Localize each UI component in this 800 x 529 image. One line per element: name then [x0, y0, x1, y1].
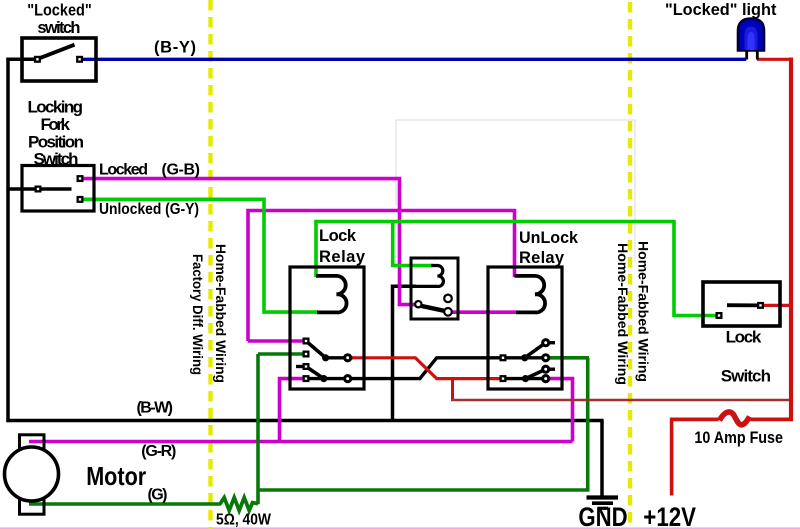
svg-text:10 Amp Fuse: 10 Amp Fuse	[694, 428, 783, 447]
svg-text:Locked: Locked	[99, 162, 148, 179]
svg-text:Factory Diff. Wiring: Factory Diff. Wiring	[190, 254, 206, 375]
svg-text:"Locked": "Locked"	[27, 2, 92, 20]
svg-text:Home-Fabbed Wiring: Home-Fabbed Wiring	[615, 243, 631, 385]
svg-text:Fork: Fork	[41, 115, 71, 134]
svg-text:(B-W): (B-W)	[137, 400, 174, 417]
svg-text:Home-Fabbed Wiring: Home-Fabbed Wiring	[636, 241, 652, 382]
svg-text:(G-R): (G-R)	[141, 443, 176, 460]
svg-text:"Locked" light: "Locked" light	[665, 0, 777, 19]
svg-text:(G-B): (G-B)	[162, 162, 201, 179]
svg-text:5Ω, 40W: 5Ω, 40W	[216, 512, 272, 529]
svg-text:(B-Y): (B-Y)	[154, 38, 196, 56]
svg-text:+12V: +12V	[643, 502, 696, 529]
svg-text:(G): (G)	[148, 487, 168, 504]
svg-text:Lock: Lock	[319, 227, 357, 245]
svg-text:Motor: Motor	[86, 461, 146, 491]
svg-text:UnLock: UnLock	[519, 229, 579, 247]
svg-text:Locking: Locking	[28, 98, 84, 117]
svg-text:Home-Fabbed Wiring: Home-Fabbed Wiring	[213, 244, 229, 383]
svg-text:GND: GND	[578, 502, 627, 529]
svg-text:Switch: Switch	[721, 367, 771, 386]
svg-text:Relay: Relay	[519, 249, 565, 267]
svg-text:Relay: Relay	[319, 248, 366, 266]
svg-text:Switch: Switch	[34, 149, 79, 168]
svg-text:Unlocked (G-Y): Unlocked (G-Y)	[99, 201, 199, 218]
svg-text:switch: switch	[37, 19, 80, 37]
svg-text:Lock: Lock	[726, 328, 762, 347]
